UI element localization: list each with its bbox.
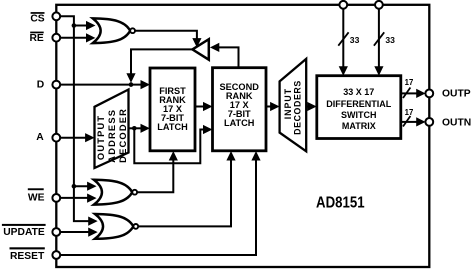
readback buffer triangle (192, 39, 208, 60)
WE pin (52, 194, 60, 202)
svg-text:OUTPUT: OUTPUT (96, 115, 106, 160)
CS pin (52, 12, 60, 20)
top input pin 2 (375, 1, 383, 9)
label OUTN (442, 117, 471, 128)
svg-text:A: A (36, 132, 44, 143)
input decoders trapezoid (280, 59, 307, 151)
wire matrix to OUTN pin (402, 116, 425, 127)
label CS with overline (30, 12, 44, 25)
RESET pin (52, 251, 60, 259)
wire buffer output to D line junction (127, 49, 192, 81)
bus width label 33 (385, 35, 395, 45)
wire WE pin to NOR U2 bottom input (60, 194, 95, 202)
wire NOR U1 output to buffer enable (135, 31, 201, 47)
svg-text:OUTN: OUTN (442, 117, 471, 128)
wire second rank readback to buffer input (211, 44, 239, 67)
svg-text:LATCH: LATCH (157, 122, 188, 132)
svg-text:33: 33 (385, 35, 395, 45)
wire NOR U2 output to first rank clock (137, 152, 177, 192)
label A (36, 132, 44, 143)
wire CS pin to NOR U1 top input with junction (60, 16, 94, 29)
svg-text:MATRIX: MATRIX (342, 121, 376, 131)
UPDATE pin (52, 228, 60, 236)
RE pin (52, 34, 60, 42)
NOR gate U1 (CS/RE) (93, 18, 135, 43)
wire decoder bypass loop to second rank latch (134, 126, 211, 164)
OUTP pin (425, 90, 433, 98)
wire RE pin to NOR U1 bottom input (60, 34, 94, 42)
label WE with overline (28, 188, 45, 203)
wire UPDATE pin to NOR U3 bottom input (60, 228, 96, 236)
wire top input pin 1 bus into matrix (338, 9, 348, 75)
bus width label 17 (405, 78, 414, 87)
wire CS net vertical down to WE gate junction (72, 26, 96, 191)
wire input decoders to switch matrix (306, 103, 315, 111)
svg-text:33: 33 (350, 35, 360, 45)
wire CS net vertical to UPDATE gate top input (74, 186, 97, 225)
A pin (52, 134, 60, 142)
wire second rank to input decoders (266, 103, 278, 111)
svg-text:CS: CS (30, 14, 44, 25)
svg-text:DIFFERENTIAL: DIFFERENTIAL (326, 99, 391, 109)
bus width label 33 (350, 35, 360, 45)
svg-text:17: 17 (405, 78, 414, 87)
svg-text:DECODERS: DECODERS (292, 80, 302, 135)
bus width label 17 (405, 108, 414, 117)
output address decoder parallelogram (95, 90, 129, 169)
wire top input pin 2 bus into matrix (374, 9, 384, 75)
wire A pin to output address decoder (60, 134, 93, 142)
second rank latch block (213, 68, 267, 151)
svg-text:WE: WE (28, 193, 45, 204)
chip outline border (56, 5, 429, 267)
wire decoder output to first rank latch with junction (129, 125, 149, 133)
33x17 differential switch matrix block (317, 76, 401, 139)
label RE with overline (29, 32, 43, 44)
svg-text:33 X 17: 33 X 17 (343, 87, 374, 97)
svg-text:D: D (37, 79, 44, 90)
svg-text:SWITCH: SWITCH (341, 110, 377, 120)
D pin (52, 81, 60, 89)
part number AD8151 (316, 195, 365, 212)
svg-text:ADDRESS: ADDRESS (107, 109, 117, 163)
top input pin 1 (339, 1, 347, 9)
wire RESET pin to second rank latch (60, 152, 260, 255)
svg-text:AD8151: AD8151 (316, 195, 365, 212)
svg-text:RE: RE (29, 33, 43, 44)
svg-text:RESET: RESET (10, 251, 45, 262)
wire NOR U3 output to second rank clock (138, 152, 235, 226)
first rank latch block (150, 68, 195, 151)
svg-text:DECODER: DECODER (118, 108, 128, 163)
label UPDATE with overline (2, 224, 46, 238)
svg-text:LATCH: LATCH (224, 118, 255, 128)
wire matrix to OUTP pin (402, 88, 425, 99)
OUTN pin (425, 118, 433, 126)
svg-text:OUTP: OUTP (442, 89, 471, 100)
label OUTP (442, 89, 471, 100)
label D (37, 79, 44, 90)
svg-text:17: 17 (405, 108, 414, 117)
NOR gate U3 (UPDATE) (95, 214, 138, 239)
svg-text:UPDATE: UPDATE (3, 227, 45, 238)
wire D pin to first rank latch with junction (60, 81, 149, 89)
label RESET with overline (10, 247, 45, 261)
wire first rank to second rank (195, 103, 211, 111)
NOR gate U2 (WE) (94, 180, 137, 205)
